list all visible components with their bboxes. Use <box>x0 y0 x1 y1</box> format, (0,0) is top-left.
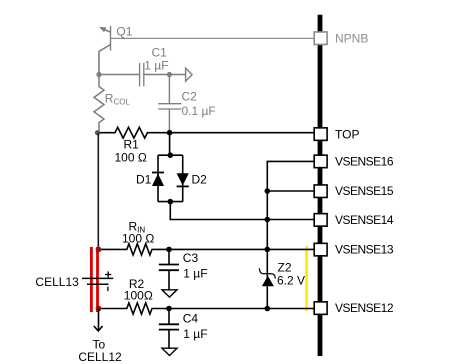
node diode bottom <box>168 199 174 205</box>
resistor RCOL <box>94 75 104 133</box>
svg-text:TOP: TOP <box>335 128 359 142</box>
node R1/C2/diodes <box>167 130 173 136</box>
node cell top red <box>96 247 102 253</box>
svg-text:VSENSE13: VSENSE13 <box>335 243 394 257</box>
plus sign <box>105 271 111 277</box>
diode D2 <box>177 173 189 186</box>
svg-text:1 µF: 1 µF <box>183 327 207 341</box>
zener Z2 <box>259 268 275 286</box>
svg-text:CELL12: CELL12 <box>78 350 122 364</box>
svg-text:100 Ω: 100 Ω <box>122 231 154 245</box>
wire to diode pair <box>169 133 171 156</box>
wire VSENSE16 <box>267 161 314 308</box>
node cell bottom red <box>96 306 102 312</box>
transistor Q1 <box>99 26 111 75</box>
svg-text:VSENSE14: VSENSE14 <box>335 213 394 227</box>
wire diodes to VSENSE14 <box>170 202 314 220</box>
svg-text:VSENSE16: VSENSE16 <box>335 154 394 168</box>
capacitor C2 <box>158 75 181 133</box>
diode pair frame <box>158 155 183 201</box>
svg-text:0.1 µF: 0.1 µF <box>182 104 216 118</box>
node zener top <box>265 247 271 253</box>
wire NPNB base wire <box>111 37 315 39</box>
pin TOP <box>314 128 327 141</box>
wire VSENSE12 rail with resistor R2 <box>99 303 315 314</box>
cell CELL13 red highlight <box>91 247 97 312</box>
svg-text:VSENSE15: VSENSE15 <box>335 184 394 198</box>
ground C4 <box>162 348 177 355</box>
node diode top <box>168 152 174 158</box>
diode D1 <box>152 173 164 187</box>
svg-text:C3: C3 <box>183 251 199 265</box>
wire VSENSE15 <box>267 190 314 192</box>
pin NPNB <box>314 32 327 45</box>
svg-text:C4: C4 <box>183 312 199 326</box>
svg-text:R1: R1 <box>124 138 140 152</box>
pin VSENSE15 <box>314 185 327 198</box>
svg-text:D2: D2 <box>192 173 208 187</box>
node collector junction <box>96 72 101 77</box>
pin VSENSE16 <box>314 155 327 168</box>
wire C1 right <box>144 74 186 76</box>
wire to CELL12 <box>98 309 100 332</box>
svg-text:VSENSE12: VSENSE12 <box>335 301 394 315</box>
wire TOP rail with resistor R1 <box>98 127 315 138</box>
left rail (R1 to RIN) <box>97 133 99 250</box>
output arrow <box>186 68 193 81</box>
node VSENSE15 tap <box>265 188 271 194</box>
svg-text:CELL13: CELL13 <box>35 275 79 289</box>
node zener bottom <box>265 306 271 312</box>
battery plates <box>82 278 113 284</box>
ground C3 <box>162 290 177 297</box>
pin VSENSE14 <box>314 214 327 227</box>
bus <box>318 15 323 356</box>
capacitor C3 <box>159 249 179 290</box>
svg-text:100Ω: 100Ω <box>124 288 153 302</box>
node RIN/C3 <box>166 247 172 253</box>
svg-text:1 µF: 1 µF <box>183 267 207 281</box>
svg-text:100 Ω: 100 Ω <box>115 151 147 165</box>
svg-text:C2: C2 <box>182 90 198 104</box>
yellow highlight <box>305 246 308 311</box>
node R2/C4 <box>166 306 172 312</box>
pin VSENSE13 <box>314 243 327 256</box>
arrowhead to CELL12 <box>94 326 103 331</box>
capacitor C1 <box>140 63 144 86</box>
wire VSENSE13 rail with resistor RIN <box>99 244 315 255</box>
svg-text:C1: C1 <box>152 46 168 60</box>
node VSENSE14 tap <box>265 217 271 223</box>
svg-text:6.2 V: 6.2 V <box>277 274 305 288</box>
pin VSENSE12 <box>314 302 327 315</box>
svg-text:NPNB: NPNB <box>335 32 368 46</box>
wire C1 left <box>99 74 140 76</box>
capacitor C4 <box>159 309 179 349</box>
minus tick <box>107 287 109 292</box>
node rail/R1 <box>95 130 100 135</box>
svg-text:1 µF: 1 µF <box>144 59 168 73</box>
svg-text:D1: D1 <box>136 173 152 187</box>
svg-text:Q1: Q1 <box>116 24 132 38</box>
svg-text:Z2: Z2 <box>278 261 292 275</box>
node C1/C2 junction <box>167 72 172 77</box>
